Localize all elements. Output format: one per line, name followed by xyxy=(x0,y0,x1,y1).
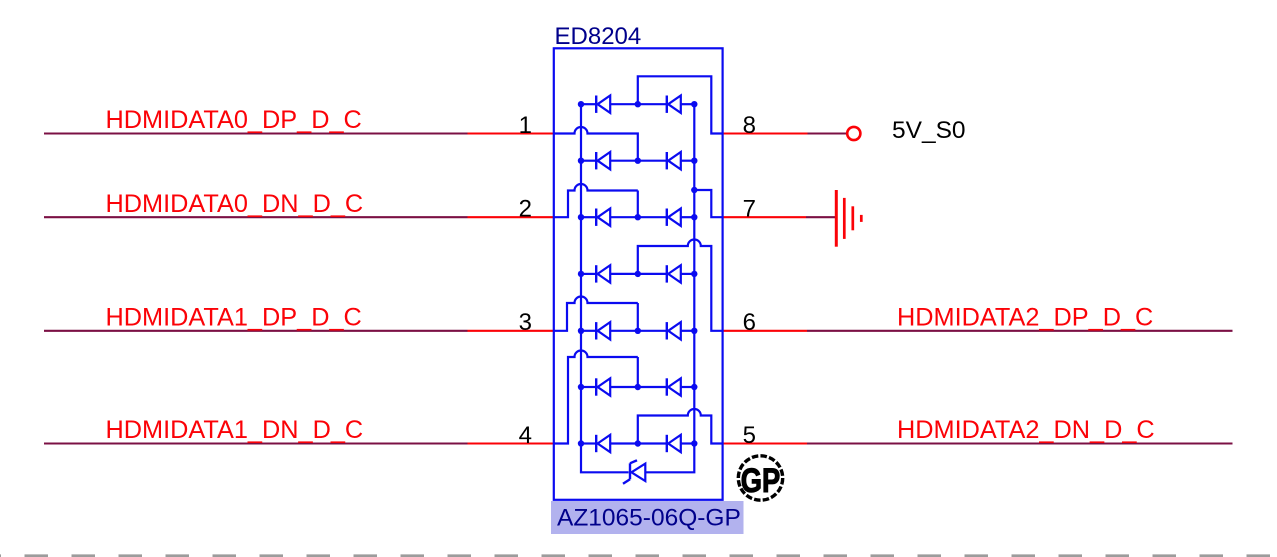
wire pin 1 to row 2 middle node (hops left rail) xyxy=(554,127,638,161)
junction row 3 right xyxy=(691,214,697,220)
part value AZ1065-06Q-GP (highlighted) xyxy=(551,501,744,534)
svg-text:8: 8 xyxy=(743,112,756,139)
zener diode Z1 xyxy=(623,460,645,484)
wire xyxy=(610,386,667,388)
right cathode rail xyxy=(645,104,694,472)
wire xyxy=(681,330,695,332)
wire pin 7 tap from right rail xyxy=(694,190,722,217)
svg-text:HDMIDATA0_DP_D_C: HDMIDATA0_DP_D_C xyxy=(106,106,362,134)
diode row 6 wire xyxy=(581,386,596,388)
diode D2b xyxy=(667,152,681,169)
junction row 6 right xyxy=(691,384,697,390)
ground symbol xyxy=(836,190,861,247)
svg-text:GP: GP xyxy=(741,462,781,500)
diode D5b xyxy=(667,322,681,339)
wire pin 3 to row 5 middle node (hops left rail) xyxy=(554,297,638,331)
wire xyxy=(681,103,695,105)
wire net HDMIDATA2_DP_D_C (right) xyxy=(723,303,1233,331)
sheet border dashed line (bottom) xyxy=(0,554,1277,557)
svg-text:5: 5 xyxy=(743,422,756,449)
diode D3b xyxy=(667,209,681,226)
wire xyxy=(610,160,667,162)
wire net HDMIDATA0_DN_D_C (left) xyxy=(44,190,554,218)
junction row 4 middle xyxy=(635,271,641,277)
junction row 4 right xyxy=(691,271,697,277)
diode row 7 wire xyxy=(581,442,596,444)
wire xyxy=(681,442,695,444)
junction pin7 tap xyxy=(691,187,697,193)
junction row 4 left xyxy=(578,271,584,277)
wire xyxy=(610,442,667,444)
diode D7b xyxy=(667,435,681,452)
wire xyxy=(681,160,695,162)
diode row 1 wire xyxy=(581,103,596,105)
junction row 7 left xyxy=(578,440,584,446)
diode row 2 wire xyxy=(581,160,596,162)
svg-text:HDMIDATA0_DN_D_C: HDMIDATA0_DN_D_C xyxy=(106,190,364,218)
wire net HDMIDATA0_DP_D_C (left) xyxy=(44,106,554,134)
left anode rail xyxy=(581,104,629,472)
svg-text:ED8204: ED8204 xyxy=(555,23,642,50)
diode D2a xyxy=(596,152,610,169)
diode D5a xyxy=(596,322,610,339)
wire net GND (pin 7) xyxy=(723,216,837,218)
junction row 7 right xyxy=(691,440,697,446)
junction row 1 left xyxy=(578,101,584,107)
svg-text:5V_S0: 5V_S0 xyxy=(892,117,966,144)
wire net HDMIDATA1_DP_D_C (left) xyxy=(44,303,554,331)
diode D6b xyxy=(667,378,681,395)
junction row 2 left xyxy=(578,158,584,164)
wire pin 8 to row 1 middle node xyxy=(638,76,723,133)
wire pin 6 from row 4 middle node (hops right rail) xyxy=(638,240,723,331)
junction row 6 left xyxy=(578,384,584,390)
wire xyxy=(610,273,667,275)
wire net HDMIDATA2_DN_D_C (right) xyxy=(723,416,1233,444)
diode D1a xyxy=(596,96,610,113)
wire xyxy=(681,273,695,275)
svg-text:HDMIDATA1_DP_D_C: HDMIDATA1_DP_D_C xyxy=(106,303,362,331)
svg-text:HDMIDATA2_DN_D_C: HDMIDATA2_DN_D_C xyxy=(897,416,1155,444)
diode row 3 wire xyxy=(581,216,596,218)
svg-text:3: 3 xyxy=(519,309,532,336)
svg-text:AZ1065-06Q-GP: AZ1065-06Q-GP xyxy=(557,505,741,532)
junction row 7 middle xyxy=(635,440,641,446)
diode D4b xyxy=(667,265,681,282)
svg-text:7: 7 xyxy=(743,196,756,223)
diode D4a xyxy=(596,265,610,282)
svg-text:1: 1 xyxy=(519,112,532,139)
wire net HDMIDATA1_DN_D_C (left) xyxy=(44,416,554,444)
svg-text:4: 4 xyxy=(519,422,532,449)
svg-text:HDMIDATA2_DP_D_C: HDMIDATA2_DP_D_C xyxy=(897,303,1153,331)
wire xyxy=(610,330,667,332)
svg-text:6: 6 xyxy=(743,309,756,336)
junction row 5 left xyxy=(578,328,584,334)
GP manufacturer logo xyxy=(738,456,782,500)
diode D3a xyxy=(596,209,610,226)
IC U? ESD array body outline xyxy=(554,48,723,500)
junction row 1 right xyxy=(691,101,697,107)
wire pin 5 from row 7 middle node (hops right rail) xyxy=(638,409,723,443)
wire pin 4 to row 6 middle node (hops left rail) xyxy=(554,351,638,444)
junction row 3 middle xyxy=(635,214,641,220)
diode D7a xyxy=(596,435,610,452)
svg-text:2: 2 xyxy=(519,196,532,223)
junction row 5 middle xyxy=(635,328,641,334)
wire net 5V_S0 (pin 8) xyxy=(723,132,847,134)
junction row 2 middle xyxy=(635,158,641,164)
diode D6a xyxy=(596,378,610,395)
junction row 1 middle xyxy=(635,101,641,107)
diode row 5 wire xyxy=(581,330,596,332)
junction row 2 right xyxy=(691,158,697,164)
wire pin 2 to row 3 middle node (hops left rail) xyxy=(554,184,638,217)
wire xyxy=(681,216,695,218)
wire xyxy=(610,216,667,218)
svg-text:HDMIDATA1_DN_D_C: HDMIDATA1_DN_D_C xyxy=(106,416,364,444)
wire xyxy=(681,386,695,388)
diode D1b xyxy=(667,96,681,113)
junction row 3 left xyxy=(578,214,584,220)
junction row 5 right xyxy=(691,328,697,334)
diode row 4 wire xyxy=(581,273,596,275)
wire xyxy=(610,103,667,105)
off-page connector circle 5V_S0 xyxy=(847,127,860,140)
junction row 6 middle xyxy=(635,384,641,390)
